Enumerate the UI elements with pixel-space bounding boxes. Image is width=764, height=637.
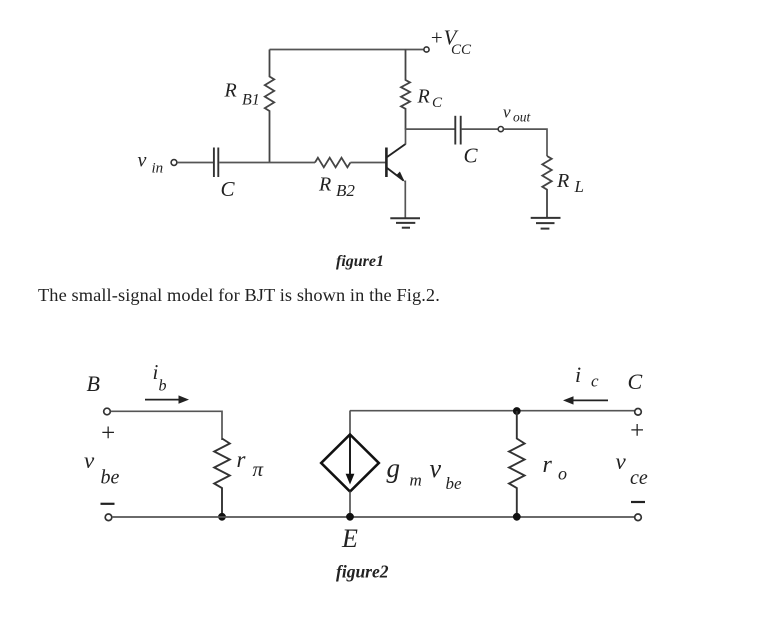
arrow ib — [145, 395, 189, 403]
svg-text:o: o — [558, 464, 567, 484]
svg-text:v: v — [138, 150, 147, 172]
wire emitter down — [404, 181, 406, 219]
svg-text:c: c — [591, 372, 599, 391]
svg-text:v: v — [430, 454, 442, 483]
node bottom-right terminal — [635, 514, 642, 521]
wire RB2 to base — [350, 162, 386, 164]
ground under RL — [531, 218, 561, 229]
junction dot E — [346, 513, 354, 521]
label r_pi — [237, 447, 264, 481]
svg-text:b: b — [159, 378, 167, 395]
svg-text:The small-signal model for BJT: The small-signal model for BJT is shown … — [38, 285, 440, 305]
transistor Q1 — [386, 144, 405, 182]
junction dot ro top — [513, 407, 521, 415]
resistor RB1 — [265, 50, 274, 163]
svg-text:ce: ce — [630, 467, 648, 489]
svg-text:L: L — [574, 177, 584, 196]
wire diamond bottom — [349, 492, 351, 517]
svg-text:C: C — [628, 369, 643, 394]
label RL — [556, 170, 584, 196]
svg-text:C: C — [432, 95, 443, 111]
wire diamond top — [349, 411, 351, 435]
svg-text:+: + — [100, 420, 117, 447]
label vin — [138, 150, 164, 177]
label vbe left — [84, 448, 120, 489]
resistor r_pi — [214, 439, 230, 517]
svg-text:r: r — [237, 447, 247, 472]
svg-text:π: π — [253, 457, 264, 481]
node +Vcc terminal — [424, 47, 429, 52]
svg-text:out: out — [513, 110, 532, 125]
node C terminal — [635, 409, 642, 416]
svg-text:be: be — [446, 474, 463, 493]
junction dot r_pi bottom — [218, 513, 226, 521]
label minus right — [631, 501, 645, 503]
ground under emitter — [390, 218, 420, 227]
wire capacitor to vout — [462, 128, 498, 130]
svg-text:+: + — [629, 418, 646, 445]
resistor ro — [509, 411, 525, 517]
node vout terminal — [498, 127, 503, 132]
wire collector to capacitor — [405, 128, 455, 130]
label ic — [575, 362, 599, 391]
resistor RC — [401, 50, 410, 130]
svg-text:m: m — [410, 471, 422, 490]
svg-text:CC: CC — [451, 42, 472, 58]
wire top supply rail — [270, 49, 424, 51]
label +Vcc — [430, 26, 473, 59]
wire bottom rail — [112, 516, 635, 518]
capacitor C input — [214, 148, 218, 178]
label ib — [153, 360, 167, 395]
dependent source gm*vbe — [321, 435, 379, 492]
wire vout to RL — [504, 129, 547, 156]
node bottom-left terminal — [105, 514, 112, 521]
svg-text:r: r — [543, 452, 553, 478]
svg-text:C: C — [464, 144, 479, 168]
label ro — [543, 452, 568, 484]
svg-text:figure1: figure1 — [336, 253, 384, 270]
wire B to r_pi — [111, 411, 222, 440]
label gm vbe — [387, 453, 463, 493]
svg-text:R: R — [417, 86, 430, 108]
wire vin to capacitor — [177, 162, 213, 164]
label RB2 — [318, 174, 355, 201]
svg-text:in: in — [152, 161, 164, 177]
svg-text:R: R — [318, 174, 331, 196]
label minus left — [101, 503, 115, 505]
svg-text:v: v — [503, 103, 511, 122]
junction dot ro bottom — [513, 513, 521, 521]
svg-text:figure2: figure2 — [336, 562, 389, 582]
wire top rail right — [350, 410, 635, 412]
resistor RL — [542, 156, 551, 217]
wire capacitor to RB2 — [219, 162, 315, 164]
label vout — [503, 103, 532, 125]
svg-text:be: be — [101, 467, 120, 489]
svg-text:E: E — [341, 524, 358, 553]
svg-text:B: B — [87, 371, 100, 396]
svg-text:i: i — [575, 362, 581, 387]
label RB1 — [224, 80, 260, 109]
wire collector up — [405, 128, 407, 144]
label RC — [417, 86, 444, 112]
node vin terminal — [171, 160, 177, 166]
svg-text:v: v — [84, 448, 95, 473]
resistor RB2 — [315, 158, 350, 168]
capacitor C output — [455, 116, 460, 145]
node B terminal — [104, 408, 111, 415]
svg-text:R: R — [556, 170, 569, 192]
svg-text:R: R — [224, 80, 237, 102]
svg-text:C: C — [221, 177, 236, 201]
svg-text:g: g — [387, 453, 401, 483]
arrow ic — [563, 396, 608, 404]
label vce right — [616, 449, 648, 489]
svg-text:B2: B2 — [336, 181, 355, 200]
svg-text:B1: B1 — [242, 92, 260, 109]
svg-text:v: v — [616, 449, 627, 474]
